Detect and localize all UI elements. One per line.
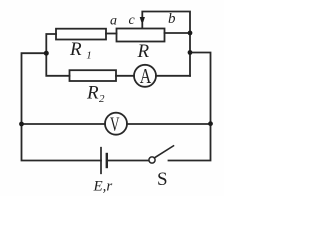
svg-text:1: 1 [86,50,92,62]
svg-text:S: S [157,169,168,190]
svg-text:R: R [137,41,150,62]
svg-text:2: 2 [99,93,105,105]
svg-text:a: a [110,13,117,28]
svg-text:c: c [129,13,136,28]
svg-text:V: V [110,114,120,136]
svg-text:b: b [168,11,176,27]
svg-text:A: A [140,64,152,88]
svg-text:R: R [69,39,82,60]
svg-text:E,r: E,r [93,179,113,195]
svg-text:R: R [86,83,99,104]
